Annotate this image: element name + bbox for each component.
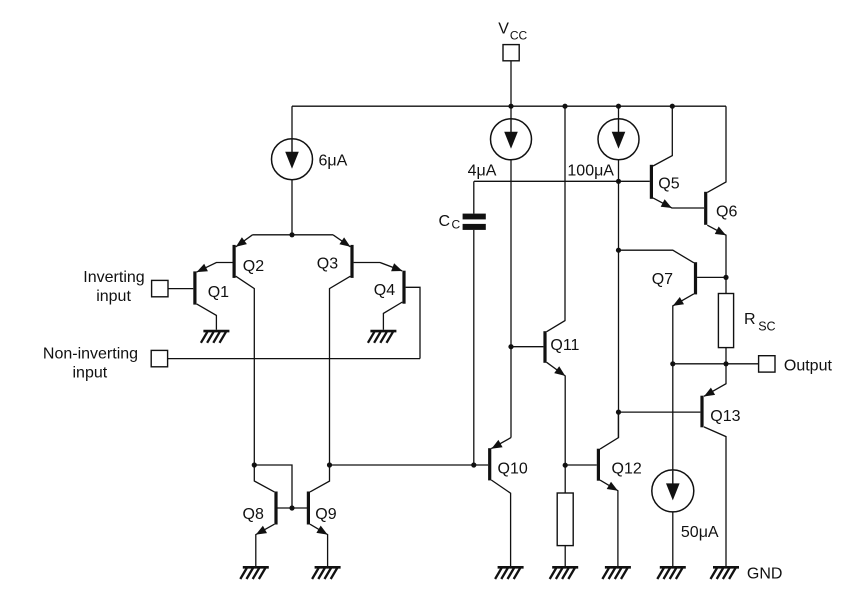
wire Q8 emitter lead (256, 524, 275, 567)
wire non-inverting input line (168, 358, 420, 360)
capacitor C_C plate 1 (463, 214, 486, 220)
ground Q10 collector (495, 567, 523, 579)
svg-text:Q1: Q1 (208, 284, 229, 301)
transistor Q2 base bar (233, 245, 236, 278)
svg-text:Q12: Q12 (612, 461, 642, 478)
wire rail to 4uA (510, 106, 512, 119)
label 50uA (681, 524, 719, 541)
label 6uA (319, 153, 348, 170)
ground Q8 emitter (240, 567, 268, 579)
label Q2 (243, 258, 264, 275)
transistor Q5 base bar (650, 165, 653, 199)
label Q5 (658, 176, 679, 193)
node Q5-collector rail junction (670, 104, 675, 109)
node Q11-emitter / Q12-base junction (563, 463, 568, 468)
terminal V_CC (503, 45, 519, 61)
capacitor C_C plate 2 (463, 224, 486, 230)
wire output node to 50uA (672, 364, 674, 470)
label Q3 (317, 256, 338, 273)
ground Q1 collector (201, 331, 230, 343)
transistor Q6 base bar (704, 192, 707, 225)
label R_SC (744, 311, 776, 334)
wire Q8-Q9 base link (278, 507, 308, 509)
arrow Q3 emitter (PNP) (339, 237, 350, 246)
arrow Q2 emitter (PNP) (236, 237, 247, 247)
label V_CC (498, 21, 527, 43)
current source 100uA (598, 119, 639, 160)
wire C_C top lead (473, 181, 475, 213)
transistor Q7 base bar (694, 262, 697, 294)
node Q7-emitter / output junction (670, 361, 675, 366)
ground Q11 emitter resistor (550, 567, 579, 579)
wire Q3 emitter lead (333, 235, 350, 247)
wire Q6 collector lead (707, 106, 726, 192)
arrow Q13 emitter (PNP) (704, 388, 715, 397)
terminal non-inverting input (151, 350, 167, 366)
svg-text:V: V (498, 21, 509, 38)
label Output (784, 358, 833, 375)
arrow Q5 emitter (NPN) (661, 199, 672, 208)
label Non-inverting input (43, 346, 138, 382)
wire Q13 collector lead (704, 427, 726, 567)
wire resistor bottom lead (564, 546, 566, 568)
current source 4uA (491, 119, 532, 160)
wire rail to 6uA source (291, 106, 293, 139)
label Q8 (243, 506, 264, 523)
wire C_C bottom lead (473, 230, 475, 465)
wire Q1 base lead (168, 288, 193, 290)
arrow Q9 emitter (NPN) (316, 526, 327, 535)
svg-text:Q3: Q3 (317, 256, 338, 273)
arrow Q1 emitter (PNP) (197, 264, 208, 272)
node Q6-emitter / Q7-base / R_SC junction (723, 275, 728, 280)
wire Q12 emitter lead (600, 480, 618, 567)
wire Q11 base lead (511, 346, 543, 348)
transistor Q10 base bar (488, 448, 491, 480)
svg-text:Q10: Q10 (498, 461, 528, 478)
label Q1 (208, 284, 229, 301)
wire Q3 collector lead (330, 276, 351, 465)
node tail junction (289, 232, 294, 237)
wire Q2-Q3 emitter bus (253, 234, 334, 236)
svg-text:CC: CC (510, 28, 528, 42)
transistor Q1 base bar (193, 271, 196, 304)
node Q5 base junction (616, 179, 621, 184)
label Q7 (652, 271, 673, 288)
node Q3-collector / Q9 junction (327, 462, 332, 467)
wire Q11 collector lead (547, 106, 565, 332)
wire Q4 collector lead (383, 302, 402, 330)
wire resistor top lead (564, 465, 566, 493)
svg-text:input: input (96, 288, 131, 305)
wire Q1 collector lead (197, 304, 217, 330)
wire Q4 base lead (406, 287, 420, 358)
svg-text:Q2: Q2 (243, 258, 264, 275)
terminal inverting input (152, 280, 168, 296)
transistor Q4 base bar (402, 271, 405, 304)
label 100uA (567, 162, 614, 179)
svg-text:Q9: Q9 (315, 506, 336, 523)
wire Q7 base lead (697, 276, 726, 278)
label Q4 (374, 282, 395, 299)
transistor Q11 base bar (543, 331, 546, 363)
transistor Q12 base bar (597, 449, 600, 481)
svg-text:C: C (452, 218, 461, 232)
node Q11 base junction (508, 344, 513, 349)
arrow Q10 emitter (PNP) (491, 440, 502, 449)
node Q2-collector / Q8 junction (252, 462, 257, 467)
node C_C bottom junction (471, 462, 476, 467)
svg-text:4μA: 4μA (468, 162, 497, 179)
wire Q9 emitter lead (310, 524, 328, 567)
node R_SC / output junction (723, 361, 728, 366)
wire 4uA to Q10 emitter (510, 160, 512, 438)
label C_C (439, 213, 461, 232)
wire Q12 base lead (565, 464, 597, 466)
label Q6 (716, 204, 737, 221)
node 100uA rail junction (616, 104, 621, 109)
ground Q4 collector (368, 331, 397, 343)
wire Q10 emitter lead (491, 438, 511, 449)
svg-text:Non-inverting: Non-inverting (43, 346, 138, 363)
resistor R_SC (718, 294, 733, 348)
node Q11-collector rail junction (562, 104, 567, 109)
current source 6uA (272, 139, 313, 180)
wire 6uA to input pair (291, 180, 293, 235)
svg-text:Q8: Q8 (243, 506, 264, 523)
node Q8-Q9 base junction (289, 505, 294, 510)
svg-text:Q5: Q5 (658, 176, 679, 193)
svg-text:SC: SC (758, 320, 775, 334)
wire Q8 base tie (254, 465, 292, 508)
arrow Q7 emitter (NPN) (673, 297, 684, 306)
label Q11 (550, 337, 579, 354)
wire output line (673, 363, 759, 365)
transistor Q8 base bar (274, 492, 277, 525)
wire Q3 base to Q4 emitter (354, 263, 403, 271)
svg-text:Inverting: Inverting (83, 269, 144, 286)
arrow Q6 emitter (NPN) (715, 227, 726, 236)
svg-text:Q11: Q11 (550, 337, 579, 354)
arrow Q8 emitter (NPN) (256, 526, 267, 535)
transistor Q13 base bar (700, 396, 703, 428)
svg-text:50μA: 50μA (681, 524, 719, 541)
wire Q5 collector lead (653, 106, 672, 166)
wire Q7 emitter lead (673, 294, 694, 364)
arrow Q12 emitter (NPN) (607, 482, 618, 491)
svg-text:C: C (439, 213, 451, 230)
wire Q12 collector lead (600, 412, 618, 449)
ground Q13 collector (711, 567, 740, 579)
wire Q5 emitter lead (653, 198, 704, 208)
current source 50uA (652, 470, 694, 512)
wire Q8 collector lead (254, 465, 274, 492)
wire Q6 emitter lead (707, 225, 726, 277)
wire V_CC top rail (292, 105, 726, 107)
wire Q13 emitter lead (704, 364, 726, 397)
wire second-stage bus (330, 464, 489, 466)
svg-text:GND: GND (747, 566, 783, 583)
wire R_SC top lead (725, 277, 727, 293)
svg-text:Q7: Q7 (652, 271, 673, 288)
label Q13 (710, 408, 740, 425)
label 4uA (468, 162, 497, 179)
ground Q12 emitter (602, 567, 631, 579)
svg-text:input: input (73, 365, 108, 382)
wire Q13 base lead (619, 411, 701, 413)
ground 50uA (657, 567, 686, 579)
transistor Q9 base bar (307, 492, 310, 525)
wire rail to 100uA (618, 106, 620, 119)
wire Q2 emitter lead (236, 235, 253, 247)
wire Q7 collector lead (619, 250, 694, 263)
svg-text:R: R (744, 311, 756, 328)
ground Q9 emitter (312, 567, 341, 579)
label Q9 (315, 506, 336, 523)
arrow Q4 emitter (PNP) (391, 263, 402, 271)
wire Q2 base to Q1 emitter (197, 263, 233, 273)
svg-text:6μA: 6μA (319, 153, 348, 170)
wire 100uA down branch (618, 160, 620, 438)
wire Q10 collector lead (491, 480, 510, 567)
transistor Q3 base bar (350, 245, 353, 278)
arrow Q11 emitter (NPN) (554, 366, 565, 376)
wire R_SC bottom lead (725, 348, 727, 364)
wire Q9 collector lead (310, 465, 330, 492)
label GND (747, 566, 783, 583)
node V_CC-rail junction (508, 104, 513, 109)
svg-text:Q13: Q13 (710, 408, 740, 425)
label Inverting input (83, 269, 144, 305)
wire 50uA to ground (672, 512, 674, 568)
node Q7 collector junction (616, 248, 621, 253)
terminal Output (759, 356, 775, 372)
resistor Q11 emitter resistor (557, 493, 573, 546)
label Q12 (612, 461, 642, 478)
svg-text:100μA: 100μA (567, 162, 614, 179)
svg-text:Q6: Q6 (716, 204, 737, 221)
wire V_CC to rail (510, 61, 512, 106)
label Q10 (498, 461, 528, 478)
svg-text:Output: Output (784, 358, 833, 375)
wire C_C to Q5 base (474, 180, 650, 182)
wire Q11 emitter lead (547, 362, 566, 465)
node Q12-collector / Q13-base junction (616, 410, 621, 415)
svg-text:Q4: Q4 (374, 282, 395, 299)
wire Q2 collector lead (236, 276, 255, 465)
